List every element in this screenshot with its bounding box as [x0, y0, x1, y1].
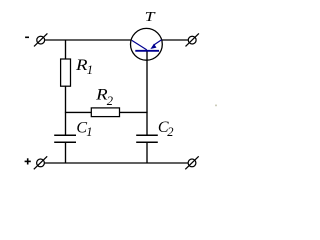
wire R2 to base node	[120, 111, 148, 113]
wire R1 to C1	[65, 86, 67, 136]
polarity label minus	[25, 37, 29, 39]
capacitor C1	[54, 135, 76, 142]
label R1	[75, 57, 93, 77]
svg-text:1: 1	[86, 125, 92, 139]
wire node to R2	[65, 111, 92, 113]
svg-text:2: 2	[107, 94, 113, 108]
emitter diagonal with arrow	[154, 40, 162, 45]
wire C2 to bottom rail	[146, 143, 148, 164]
label R2	[95, 87, 113, 108]
wire top node to R1	[65, 40, 67, 60]
terminal bottom-left	[34, 156, 47, 169]
capacitor C2	[136, 135, 158, 142]
resistor R2	[91, 108, 119, 117]
label C2	[158, 119, 174, 139]
collector diagonal	[132, 40, 147, 50]
base bar	[135, 50, 159, 52]
svg-text:1: 1	[87, 63, 93, 77]
wire top-left to transistor	[45, 39, 132, 41]
speck artifact	[215, 104, 217, 106]
terminal top-right	[186, 33, 199, 46]
terminal bottom-right	[185, 156, 198, 169]
terminal top-left	[34, 33, 47, 46]
wire base to R2/C2 node	[146, 52, 148, 136]
label C1	[76, 120, 92, 140]
resistor R1	[61, 59, 71, 86]
wire transistor to top-right terminal	[162, 39, 189, 41]
transistor T	[131, 28, 163, 60]
wire C1 to bottom rail	[65, 143, 67, 164]
svg-text:2: 2	[167, 125, 173, 139]
polarity label plus	[25, 158, 31, 164]
bottom rail wire	[44, 162, 188, 164]
